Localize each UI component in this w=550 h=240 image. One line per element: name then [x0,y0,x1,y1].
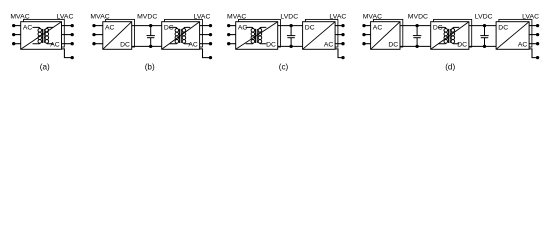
node (d) LVAC terminal 1 [536,24,539,27]
svg-text:DC: DC [266,42,276,49]
wire (a) MVAC phase 2 stub [14,34,21,36]
svg-text:DC: DC [498,24,508,31]
wire (b) MVAC phase 1 stub [94,25,103,27]
wire (c) LVDC link negative rail [278,45,303,47]
svg-text:(b): (b) [145,62,155,71]
node (b) LVAC neutral terminal [209,56,212,59]
wire (b) LVAC phase 1 stub [200,25,211,27]
wire (c) LVAC neutral [335,49,343,58]
node (d) LVAC terminal 2 [536,33,539,36]
node (c) MVAC terminal 2 [227,33,230,36]
transformer T1 [33,27,54,43]
node (d) MVAC terminal 2 [362,33,365,36]
svg-text:(c): (c) [279,62,289,71]
node (b) LVAC terminal 3 [209,42,212,45]
capacitor C2 (DC-link) [287,26,295,47]
svg-text:(d): (d) [445,62,455,71]
wire (b) MVAC phase 3 stub [94,43,103,45]
wire (a) LVAC phase 3 stub [62,43,73,45]
node (c) LVAC neutral terminal [341,56,344,59]
wire (a) LVAC phase 2 stub [62,34,73,36]
converter U1 (AC/AC box, twin outline) [21,19,65,49]
svg-text:DC: DC [164,24,174,31]
svg-text:LVDC: LVDC [475,14,493,21]
wire (b) MVAC phase 2 stub [94,34,103,36]
wire (c) MVAC phase 3 stub [229,43,236,45]
node (b) MVAC terminal 3 [92,42,95,45]
node C1 top junction [149,24,152,27]
wire (c) LVDC link positive rail [278,25,303,27]
svg-text:AC: AC [238,24,248,31]
wire (d) LVAC neutral [529,49,538,58]
node C3 bottom junction [415,45,418,48]
wire (d) MVAC phase 3 stub [364,43,371,45]
svg-text:DC: DC [457,42,467,49]
node C2 top junction [289,24,292,27]
wire (a) MVAC phase 3 stub [14,43,21,45]
svg-text:AC: AC [518,42,528,49]
wire (d) MVAC phase 2 stub [364,34,371,36]
wire (b) MVDC link negative rail [132,45,162,47]
wire (a) MVAC phase 1 stub [14,25,21,27]
svg-text:AC: AC [188,42,198,49]
node (a) LVAC terminal 3 [71,42,74,45]
node (d) LVAC neutral terminal [536,56,539,59]
converter U7 (DC/DC box, twin outline) [431,19,472,49]
wire (c) LVAC phase 1 stub [335,25,343,27]
wire (b) LVAC phase 2 stub [200,34,211,36]
wire (a) LVAC phase 1 stub [62,25,73,27]
node (b) MVAC terminal 1 [92,24,95,27]
node (d) LVAC terminal 3 [536,42,539,45]
svg-text:AC: AC [23,24,33,31]
svg-text:LVDC: LVDC [280,14,298,21]
node (a) LVAC terminal 1 [71,24,74,27]
svg-text:(a): (a) [40,62,50,71]
capacitor C3 (DC-link) [413,26,421,47]
node (a) LVAC neutral terminal [71,56,74,59]
node (a) MVAC terminal 1 [12,24,15,27]
wire (d) LVAC phase 1 stub [529,25,538,27]
node (c) MVAC terminal 1 [227,24,230,27]
wire (d) LVAC phase 3 stub [529,43,538,45]
wire (c) MVAC phase 1 stub [229,25,236,27]
svg-text:DC: DC [120,42,130,49]
svg-text:AC: AC [105,24,115,31]
wire (d) LVAC phase 2 stub [529,34,538,36]
svg-text:AC: AC [50,42,60,49]
converter U6 (AC/DC box, twin outline) [371,19,403,49]
transformer T4 [439,27,460,43]
node (a) LVAC terminal 2 [71,33,74,36]
node (b) MVAC terminal 2 [92,33,95,36]
node C3 top junction [415,24,418,27]
node (d) MVAC terminal 3 [362,42,365,45]
capacitor C4 (DC-link) [480,26,488,47]
svg-text:MVDC: MVDC [137,14,157,21]
transformer T2 [170,27,191,43]
converter U5 (DC/AC box, twin outline) [303,19,338,49]
node (d) MVAC terminal 1 [362,24,365,27]
node (a) MVAC terminal 2 [12,33,15,36]
wire (b) MVDC link positive rail [132,25,162,27]
wire (c) LVAC phase 3 stub [335,43,343,45]
node C4 bottom junction [483,45,486,48]
node C4 top junction [483,24,486,27]
capacitor C1 (DC-link) [147,26,155,47]
svg-text:DC: DC [433,24,443,31]
wire (d) MVDC link positive rail [400,25,431,27]
node (a) MVAC terminal 3 [12,42,15,45]
node (c) MVAC terminal 3 [227,42,230,45]
wire (d) MVAC phase 1 stub [364,25,371,27]
svg-text:AC: AC [373,24,383,31]
node (c) LVAC terminal 3 [341,42,344,45]
node (b) LVAC terminal 2 [209,33,212,36]
svg-text:AC: AC [324,42,334,49]
node C2 bottom junction [289,45,292,48]
node (c) LVAC terminal 2 [341,33,344,36]
converter U8 (DC/AC box, twin outline) [496,19,532,49]
wire (d) MVDC link negative rail [400,45,431,47]
svg-text:DC: DC [388,42,398,49]
wire (a) LVAC neutral [62,49,73,58]
wire (b) LVAC phase 3 stub [200,43,211,45]
svg-text:DC: DC [305,24,315,31]
converter U2 (AC/DC box, twin outline) [103,19,135,49]
svg-text:MVDC: MVDC [408,14,428,21]
wire (c) MVAC phase 2 stub [229,34,236,36]
wire (d) LVDC link positive rail [469,25,496,27]
transformer T3 [246,27,267,43]
wire (b) LVAC neutral [200,49,211,58]
converter U4 (AC/DC box, twin outline) [236,19,281,49]
wire (c) LVAC phase 2 stub [335,34,343,36]
node (c) LVAC terminal 1 [341,24,344,27]
wire (d) LVDC link negative rail [469,45,496,47]
converter U3 (DC/AC box, twin outline) [162,19,203,49]
node (b) LVAC terminal 1 [209,24,212,27]
node C1 bottom junction [149,45,152,48]
